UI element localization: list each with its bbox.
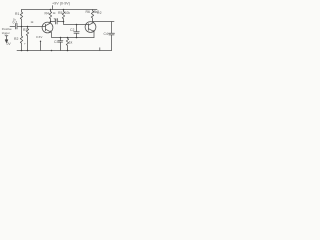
svg-text:Tr1: Tr1 bbox=[54, 18, 59, 22]
svg-text:R1: R1 bbox=[15, 12, 19, 16]
svg-text:+: + bbox=[24, 42, 26, 46]
svg-text:R3: R3 bbox=[23, 28, 27, 32]
svg-text:0·1: 0·1 bbox=[13, 21, 18, 25]
svg-text:R5: R5 bbox=[58, 11, 62, 15]
svg-text:R6: R6 bbox=[86, 10, 90, 14]
svg-text:0V: 0V bbox=[7, 42, 12, 46]
svg-text:C3: C3 bbox=[54, 40, 58, 44]
svg-text:Tr2: Tr2 bbox=[97, 11, 102, 15]
svg-text:1k: 1k bbox=[53, 11, 57, 15]
svg-text:0·6V: 0·6V bbox=[36, 35, 42, 39]
svg-text:10k: 10k bbox=[65, 11, 71, 15]
svg-text:trigger: trigger bbox=[2, 31, 10, 35]
svg-text:R2: R2 bbox=[14, 37, 18, 41]
svg-text:C2: C2 bbox=[70, 28, 74, 32]
svg-text:C4: C4 bbox=[104, 32, 108, 36]
svg-text:+9V (0·9V): +9V (0·9V) bbox=[52, 1, 70, 5]
svg-text:R4: R4 bbox=[45, 12, 49, 16]
svg-text:1k: 1k bbox=[31, 20, 35, 24]
svg-text:1k: 1k bbox=[69, 41, 73, 45]
